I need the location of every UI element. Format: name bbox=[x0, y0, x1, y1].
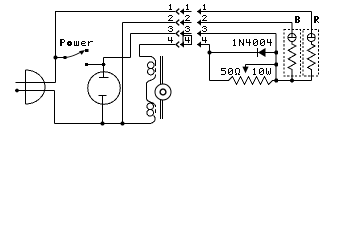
wire row1 down to lamp R bbox=[310, 12, 312, 38]
wire row4 riser bbox=[139, 45, 141, 57]
connector row 4 pin numbers and arrows bbox=[168, 36, 210, 48]
wire to switch pole bbox=[56, 57, 66, 59]
wire bottom rail bbox=[55, 123, 151, 125]
label B bbox=[295, 16, 300, 23]
connector row 2 pin numbers and arrows bbox=[168, 15, 292, 26]
wire row4 left bbox=[140, 44, 176, 46]
connector row 3 pin numbers and arrows bbox=[168, 26, 276, 37]
wire row3 left bbox=[131, 33, 176, 35]
lamp R internal resistor bbox=[308, 42, 316, 81]
label 10W bbox=[253, 68, 271, 75]
node lamp top bbox=[102, 63, 106, 67]
diode D1 wire bbox=[210, 52, 277, 54]
transformer T1 core bbox=[160, 56, 162, 119]
wire row2 riser bbox=[122, 23, 124, 124]
node: switch tap bbox=[54, 56, 58, 60]
node: row4 riser / diode anode wire bbox=[208, 51, 212, 55]
AC plug P1 bbox=[15, 70, 55, 104]
rheostat tap wire bbox=[246, 64, 277, 66]
lamp B bulb bbox=[288, 34, 296, 42]
neon lamp NE1 bbox=[88, 72, 121, 124]
wire row2 left bbox=[123, 22, 176, 24]
transformer T1 top winding bbox=[148, 57, 156, 80]
lamp assembly R dashed box bbox=[303, 30, 319, 77]
node: resistor to rail junction bbox=[274, 79, 278, 83]
wire row4 down bbox=[209, 45, 211, 81]
wire switch output bbox=[85, 63, 88, 66]
wire row1 left bbox=[56, 11, 176, 13]
label 50 ohm bbox=[221, 68, 240, 75]
resistor R1 50ohm 10W bbox=[210, 77, 277, 85]
switch S1 bbox=[63, 49, 88, 59]
rheostat wiper arrow bbox=[242, 67, 248, 74]
diode D1 bbox=[257, 48, 259, 57]
wire: plug hot up to row1 bbox=[55, 11, 57, 83]
transformer T1 winding bypass bbox=[147, 80, 153, 103]
node lamp bottom bbox=[101, 122, 105, 126]
label Power bbox=[60, 39, 93, 46]
wire row3 down bbox=[275, 34, 277, 81]
node: diode cathode junction bbox=[274, 51, 278, 55]
lamp R bulb bbox=[307, 34, 315, 42]
wire lamp stem up bbox=[103, 58, 105, 78]
node: wiper tap junction bbox=[274, 63, 278, 67]
node: row2 riser to bottom rail bbox=[121, 122, 125, 126]
connector row 1 pin numbers and arrows bbox=[169, 4, 311, 15]
node: lamp B to rail junction bbox=[290, 79, 294, 83]
wire: plug neutral down bbox=[54, 91, 56, 124]
transformer T1 bottom winding bbox=[147, 103, 156, 124]
lamp B internal resistor bbox=[288, 42, 296, 81]
wire row2 down to lamp B bbox=[291, 23, 293, 38]
label R bbox=[314, 16, 319, 23]
wire to row3 riser bbox=[104, 57, 131, 59]
wire bottom right rail bbox=[276, 80, 311, 82]
wire row3 riser bbox=[130, 34, 132, 58]
transformer wiper bbox=[155, 84, 171, 100]
lamp assembly B dashed box bbox=[284, 30, 301, 77]
label 1N4004 bbox=[233, 39, 272, 46]
